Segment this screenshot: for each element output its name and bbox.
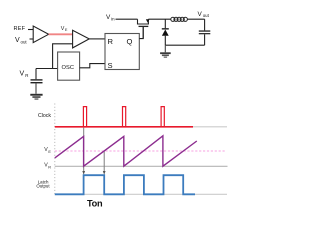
diode D1: [162, 28, 169, 36]
transistor Q1 (PMOS switch): [138, 19, 150, 26]
svg-text:out: out: [203, 13, 210, 18]
axis time-zero (dotted): [54, 104, 56, 196]
label VR (waveform): [44, 163, 51, 170]
label VR: [20, 70, 29, 78]
waveform Latch Output (blue): [55, 175, 195, 194]
axis latch baseline (grey): [55, 193, 227, 195]
label Latch Output: [36, 180, 50, 189]
comparator U2: [73, 30, 90, 48]
axis VR baseline (grey): [55, 165, 228, 167]
wire OSC output to S input: [80, 64, 105, 68]
wire switch node to diode: [164, 19, 166, 28]
label REF: [14, 26, 26, 32]
marker clock edge (grey arrow): [82, 128, 85, 175]
svg-text:V: V: [20, 70, 25, 77]
wire drain to switch node: [148, 18, 171, 20]
op-amp error amplifier: [33, 26, 48, 43]
wire diode anode down: [164, 36, 166, 46]
wire capacitor to bottom rail: [204, 34, 206, 45]
label Vout (output): [198, 11, 210, 18]
svg-text:E: E: [65, 28, 68, 32]
wire gate: [142, 27, 144, 39]
label Clock: [38, 113, 51, 119]
wire bottom rail: [165, 44, 204, 46]
wire Vout stub: [30, 38, 34, 40]
svg-text:Ton: Ton: [87, 198, 103, 208]
latch U3 (RS flip-flop): [105, 34, 139, 70]
wire Vin to transistor: [116, 18, 138, 20]
svg-text:Q: Q: [127, 37, 133, 46]
svg-text:E: E: [48, 150, 51, 154]
svg-text:REF: REF: [14, 26, 26, 32]
wire REF stub: [28, 29, 33, 31]
label Ton: [87, 198, 103, 208]
wire inductor to Vout: [187, 18, 204, 20]
capacitor C2: [199, 30, 211, 34]
trace VE level (pink dashed): [55, 150, 226, 152]
label Vout (feedback input): [15, 37, 27, 45]
waveform VR ramp (purple): [55, 136, 197, 166]
label VE (waveform): [44, 147, 51, 154]
wire Q output to gate: [139, 27, 143, 39]
oscillator OSC: [58, 52, 80, 80]
wire VE (red): [49, 33, 73, 35]
svg-text:OSC: OSC: [62, 65, 75, 71]
ground (power stage): [160, 52, 171, 58]
marker VE crossing (grey arrow): [103, 151, 106, 175]
wire capacitor to ground: [35, 83, 37, 93]
svg-text:R: R: [48, 165, 51, 169]
wire comparator lower input: [53, 44, 73, 69]
node VR wire: [36, 68, 58, 70]
ground (VR capacitor): [30, 94, 42, 100]
wire to power ground: [164, 45, 166, 52]
label Vin: [106, 14, 115, 21]
wire Vout to capacitor: [204, 19, 206, 30]
svg-text:V: V: [15, 37, 20, 44]
svg-text:S: S: [108, 61, 113, 70]
svg-text:R: R: [25, 73, 28, 78]
capacitor C1: [31, 79, 43, 83]
svg-text:Output: Output: [36, 183, 50, 188]
svg-text:out: out: [21, 40, 28, 45]
inductor L1: [171, 17, 188, 21]
waveform Clock (red): [55, 107, 193, 127]
svg-text:Clock: Clock: [38, 113, 51, 119]
axis clock baseline (grey): [55, 126, 227, 128]
svg-text:R: R: [108, 37, 114, 46]
label VE: [61, 26, 68, 32]
svg-text:in: in: [111, 16, 115, 21]
wire comparator output to R input: [89, 38, 105, 40]
wire VR to capacitor: [35, 69, 37, 80]
